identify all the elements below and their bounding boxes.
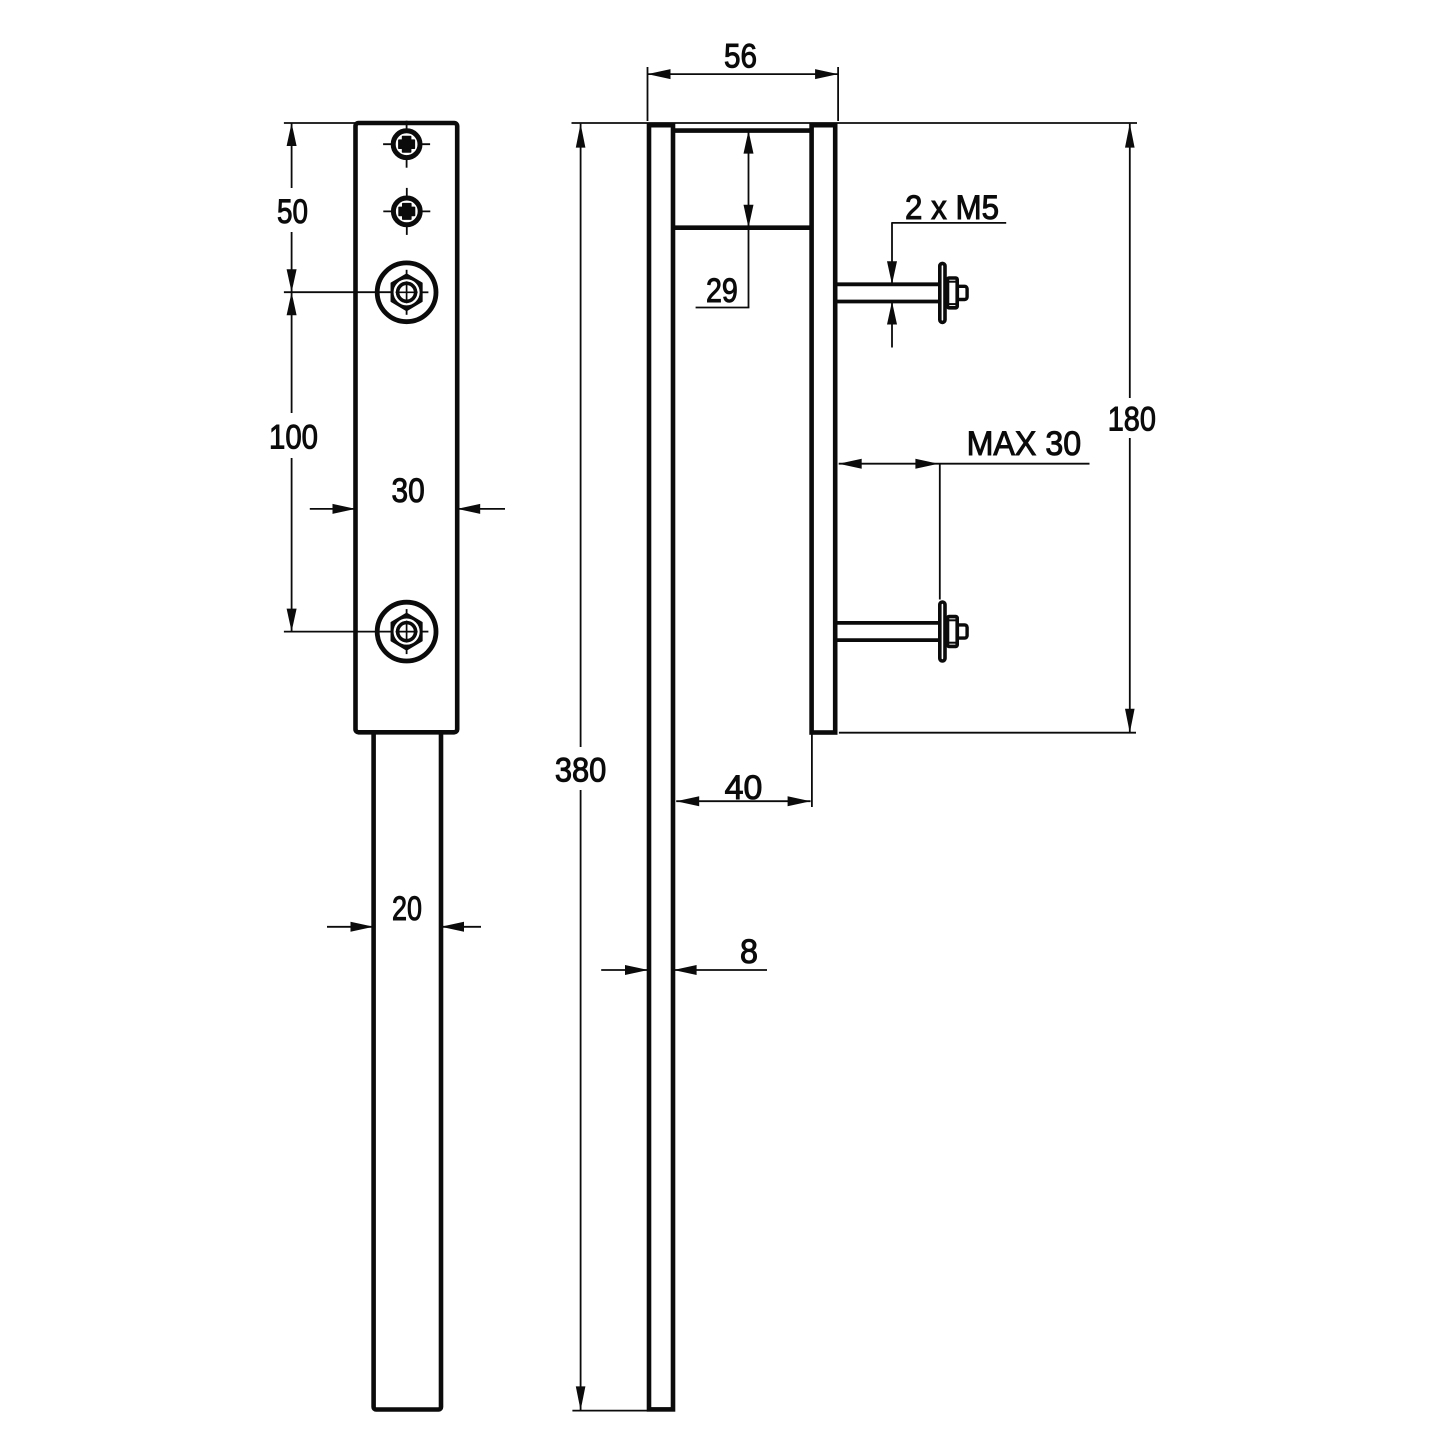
- svg-text:MAX 30: MAX 30: [967, 425, 1082, 463]
- side view: shared top extension line (for 380 and 180 dims): [572, 122, 1138, 124]
- dimension MAX 30: extension line to lower washer: [939, 464, 941, 600]
- side view: grip bar 8mm thick, full height: [649, 125, 673, 1409]
- side view: mounting plate bar (180 tall): [812, 125, 836, 732]
- svg-text:2 x M5: 2 x M5: [905, 189, 999, 227]
- svg-text:8: 8: [740, 933, 758, 971]
- dimension 50: dim line upper part with arrow: [291, 123, 293, 188]
- side view: M5 bolt (lower) with washer and nut: [837, 602, 967, 661]
- dimension 29: vertical dim line with arrows: [748, 131, 750, 308]
- svg-text:100: 100: [269, 418, 318, 456]
- phillips screw S2: [383, 188, 430, 235]
- left view: handle rod (20 wide) below plate: [374, 732, 441, 1409]
- svg-text:20: 20: [392, 890, 422, 928]
- dimension 180: dim line lower part with arrow: [1129, 438, 1131, 733]
- svg-text:50: 50: [277, 193, 308, 231]
- dimension 29: underline leader: [696, 307, 750, 309]
- hex-socket bolt head B2 with washer circle: [377, 602, 436, 661]
- left view: mounting plate (30x180) front face: [356, 123, 458, 732]
- dimension 180: bottom extension line: [839, 732, 1136, 734]
- phillips screw S1 (top): [383, 121, 430, 168]
- extension line through bolt B2 centre: [284, 631, 392, 633]
- svg-text:56: 56: [724, 38, 757, 76]
- hex-socket bolt head B1 with washer circle: [377, 263, 436, 322]
- side view: M5 bolt (upper) with washer and nut: [837, 263, 967, 322]
- dimension 20: dim line with inward arrows: [327, 926, 374, 928]
- dimension MAX 30: dim line with arrows: [839, 463, 1090, 465]
- dimension 40: extension line below plate: [811, 735, 813, 808]
- annotation 2 x M5: leader with arrows to bolt shaft: [891, 223, 893, 284]
- dimension 100: dim line upper part with arrow: [291, 292, 293, 413]
- dimension 40: dim line with outward arrows: [676, 800, 810, 802]
- dimension 56: dim line with outward arrows: [648, 73, 839, 75]
- svg-text:180: 180: [1108, 401, 1156, 439]
- dimension 180: dim line upper part with arrow: [1129, 124, 1131, 398]
- dimension 30: dim line with inward arrows: [310, 508, 356, 510]
- svg-text:380: 380: [555, 752, 607, 790]
- side view: top connecting block, bottom edge (29 line): [675, 225, 812, 230]
- dimension 380: dim line upper part with arrow: [580, 124, 582, 747]
- dimension 50: dim line lower part with arrow: [291, 232, 293, 292]
- dimension 56: extension lines: [647, 67, 649, 121]
- svg-text:30: 30: [392, 472, 425, 510]
- dimension 8: dim line with inward arrows: [601, 969, 648, 971]
- dimension 100: dim line lower part with arrow: [291, 458, 293, 632]
- extension line through bolt B1 centre: [284, 291, 392, 293]
- annotation 2 x M5: underline leader: [891, 222, 1006, 224]
- dimension 50: top extension line: [284, 122, 356, 124]
- side view: top connecting block (29 tall), top edge: [675, 128, 812, 133]
- dimension 380: bottom extension line: [572, 1410, 648, 1412]
- svg-text:29: 29: [706, 272, 738, 310]
- dimension 380: dim line lower part with arrow: [580, 790, 582, 1410]
